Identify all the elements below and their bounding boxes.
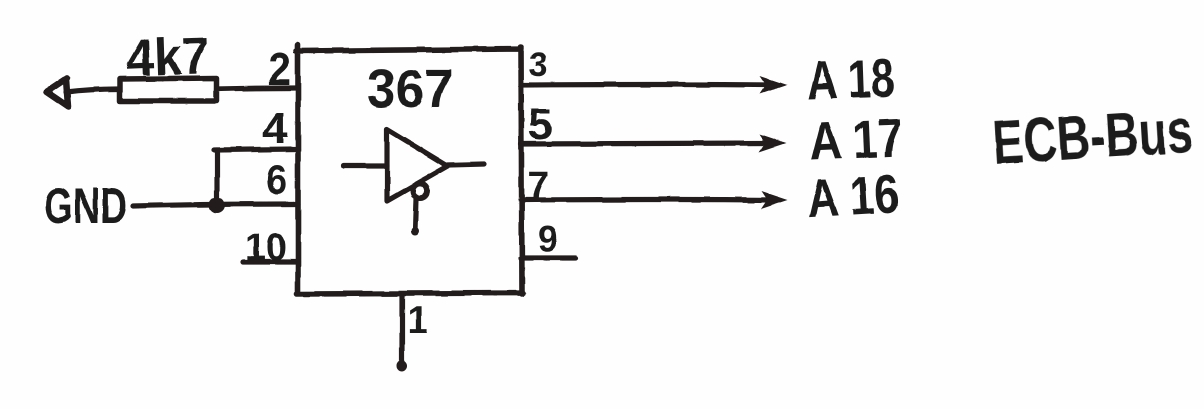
svg-text:7: 7 <box>528 165 549 207</box>
svg-text:1: 1 <box>407 300 428 342</box>
svg-text:6: 6 <box>266 156 287 203</box>
pin 5 wire <box>521 143 770 144</box>
svg-text:ECB-Bus: ECB-Bus <box>991 97 1195 178</box>
pin 3 wire <box>521 82 770 88</box>
svg-text:2: 2 <box>268 43 291 95</box>
connector arrow left <box>46 78 68 107</box>
pin 10 stub <box>243 259 298 264</box>
svg-text:9: 9 <box>538 218 558 259</box>
svg-text:GND: GND <box>44 178 127 234</box>
pin 1 wire end dot <box>397 361 408 372</box>
svg-text:A 18: A 18 <box>806 48 895 111</box>
buffer enable stub <box>415 199 416 230</box>
arrowhead A17 <box>759 134 786 152</box>
buffer enable bubble <box>413 184 428 199</box>
svg-text:367: 367 <box>367 59 453 119</box>
pin 4 wire <box>214 149 298 150</box>
resistor R1 4k7 body <box>120 78 217 101</box>
pin 4 to GND vertical wire <box>214 150 219 204</box>
pin 7 wire <box>521 197 772 203</box>
svg-text:4k7: 4k7 <box>125 27 210 88</box>
buffer output wire <box>448 164 484 165</box>
buffer enable end dot <box>411 227 419 235</box>
pin 1 wire <box>399 294 404 366</box>
svg-text:3: 3 <box>529 46 548 84</box>
svg-text:A 17: A 17 <box>808 108 905 172</box>
IC U1 74367 box <box>296 45 523 294</box>
wire resistor to pin 2 <box>217 88 297 89</box>
arrowhead A18 <box>760 76 787 94</box>
wire arrow to resistor <box>66 89 119 92</box>
pin 9 stub <box>521 255 576 260</box>
buffer symbol triangle <box>387 129 448 201</box>
buffer input wire <box>344 163 387 168</box>
junction dot pin4/GND <box>209 197 225 213</box>
svg-text:4: 4 <box>262 104 289 153</box>
svg-text:5: 5 <box>528 100 552 149</box>
arrowhead A16 <box>761 191 788 209</box>
svg-text:A 16: A 16 <box>805 164 900 230</box>
svg-text:10: 10 <box>245 227 287 269</box>
GND wire pin 6 <box>133 204 298 206</box>
